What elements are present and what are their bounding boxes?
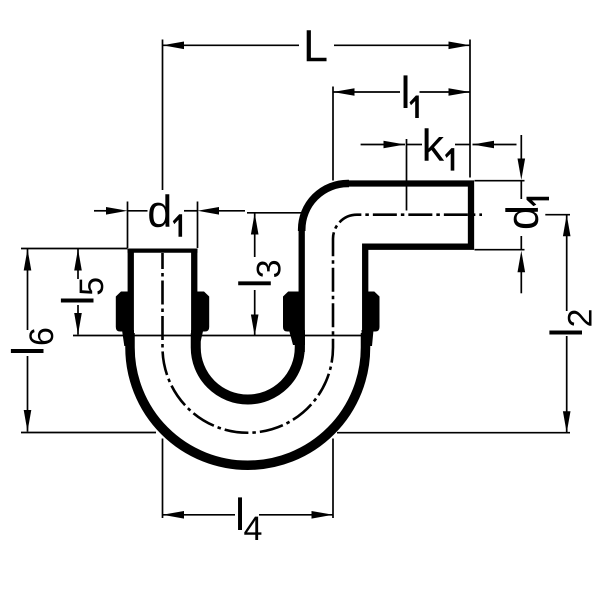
- outlet pipe walls: [299, 230, 305, 352]
- label l1: [404, 75, 408, 108]
- label L: [307, 30, 327, 61]
- outlet pipe elbow outer arc: [302, 184, 349, 232]
- left inlet pipe: left wall: [128, 252, 134, 352]
- U-bend inner wall: [196, 333, 300, 400]
- dimension d1 (outlet diameter, right, vertical): [475, 135, 525, 293]
- dimension L (overall length, top): [163, 40, 471, 191]
- dimension d1 (left pipe diameter): [94, 202, 245, 249]
- pipe centerline (dash-dot): [163, 215, 483, 433]
- label d1 left: [149, 194, 169, 227]
- label d1 right (rotated): [505, 197, 549, 228]
- dimension k1: [361, 139, 517, 211]
- label l6 (rotated): [11, 329, 53, 353]
- socket hub right pipe left side: [283, 292, 300, 332]
- U-bend outer wall: [130, 333, 366, 465]
- socket hub left pipe right side: [196, 292, 209, 332]
- label l3 (rotated): [238, 261, 280, 285]
- label l2 (rotated): [549, 310, 591, 334]
- dimension l5 (left, vertical): [77, 249, 79, 335]
- dimension l6 (far left, vertical): [21, 249, 156, 433]
- socket hub right pipe right side: [367, 292, 380, 332]
- left inlet pipe: right wall: [191, 252, 197, 352]
- dimension l2 (right, vertical): [337, 215, 570, 433]
- dimension l3 (middle, vertical): [73, 213, 371, 336]
- label k1: [425, 128, 445, 161]
- label l4: [238, 497, 242, 530]
- left inlet pipe: top rim: [128, 249, 198, 253]
- label l5 (rotated): [61, 278, 103, 302]
- dimension l1: [333, 87, 470, 181]
- socket hub left pipe left side: [116, 292, 129, 332]
- dimension l4 (bottom): [163, 439, 334, 519]
